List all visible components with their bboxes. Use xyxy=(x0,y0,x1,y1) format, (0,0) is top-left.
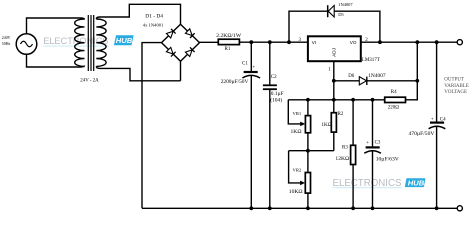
svg-text:VO: VO xyxy=(350,40,357,45)
svg-text:ADJ: ADJ xyxy=(331,48,336,57)
svg-text:1N4007: 1N4007 xyxy=(338,2,353,7)
svg-text:VOLTAGE: VOLTAGE xyxy=(444,90,467,95)
svg-text:HUB: HUB xyxy=(116,36,133,45)
svg-text:R4: R4 xyxy=(391,90,397,95)
svg-text:1KΩ: 1KΩ xyxy=(322,123,332,128)
svg-text:+: + xyxy=(431,117,434,123)
svg-text:470µF/50V: 470µF/50V xyxy=(409,131,435,137)
svg-text:HUB: HUB xyxy=(408,178,425,187)
svg-text:VI: VI xyxy=(312,40,316,45)
svg-text:C4: C4 xyxy=(440,118,446,123)
svg-text:R3: R3 xyxy=(342,146,348,151)
svg-text:D1 - D4: D1 - D4 xyxy=(145,13,163,19)
svg-text:(104): (104) xyxy=(270,96,282,103)
svg-text:220Ω: 220Ω xyxy=(388,105,400,110)
svg-text:D6: D6 xyxy=(348,74,355,79)
svg-text:R2: R2 xyxy=(338,112,344,117)
svg-text:VARIABLE: VARIABLE xyxy=(444,84,469,89)
svg-text:1KΩ: 1KΩ xyxy=(291,129,302,135)
svg-text:VR1: VR1 xyxy=(293,111,302,116)
svg-text:2200µF/50V: 2200µF/50V xyxy=(221,79,249,85)
svg-text:+: + xyxy=(252,65,255,71)
svg-text:C1: C1 xyxy=(242,62,248,67)
svg-text:OUTPUT: OUTPUT xyxy=(444,78,464,83)
svg-text:10KΩ: 10KΩ xyxy=(289,189,303,195)
svg-text:R1: R1 xyxy=(225,47,231,52)
svg-text:10µF/63V: 10µF/63V xyxy=(376,156,399,162)
svg-text:+: + xyxy=(366,140,369,146)
svg-text:240V: 240V xyxy=(2,36,11,40)
svg-text:24V - 2A: 24V - 2A xyxy=(80,79,99,84)
svg-text:4x 1N4001: 4x 1N4001 xyxy=(143,22,164,27)
svg-text:VR2: VR2 xyxy=(293,168,302,173)
svg-text:C3: C3 xyxy=(375,140,381,145)
svg-text:LM317T: LM317T xyxy=(362,58,380,63)
svg-text:2.2KΩ/1W: 2.2KΩ/1W xyxy=(216,33,242,39)
svg-text:C2: C2 xyxy=(271,75,277,80)
svg-text:0.1µF: 0.1µF xyxy=(271,91,284,97)
svg-text:12KΩ: 12KΩ xyxy=(335,156,349,162)
svg-text:1: 1 xyxy=(328,67,331,72)
svg-text:50Hz: 50Hz xyxy=(2,42,11,46)
svg-text:1N4007: 1N4007 xyxy=(368,73,386,79)
svg-text:D5: D5 xyxy=(338,12,344,17)
